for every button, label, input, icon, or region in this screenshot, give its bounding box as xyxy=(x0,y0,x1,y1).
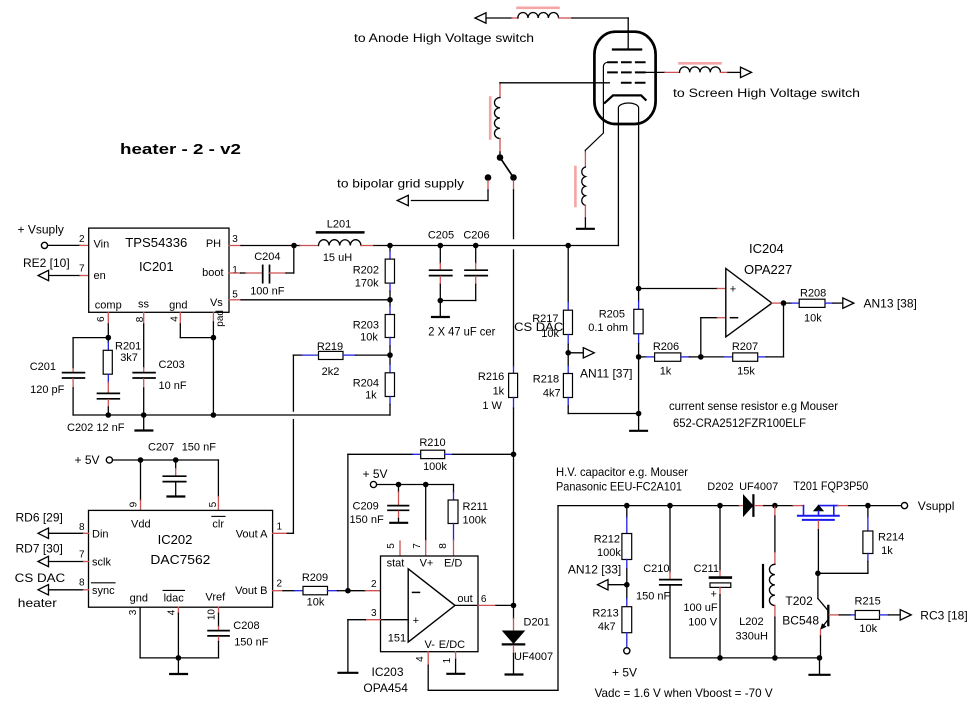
pin number 3 xyxy=(232,234,238,245)
ground boost rail xyxy=(810,658,830,675)
svg-text:V-: V- xyxy=(425,639,436,651)
svg-text:+ 5V: + 5V xyxy=(363,467,388,481)
arrow RD6 xyxy=(38,528,49,538)
wire AN12 node to arrow xyxy=(609,584,627,586)
node AN12 xyxy=(624,582,630,588)
ground D201 xyxy=(506,646,523,675)
svg-text:PH: PH xyxy=(206,238,221,250)
node out xyxy=(511,603,517,609)
wire grid choke to switch pole xyxy=(499,139,501,158)
svg-text:C206: C206 xyxy=(463,230,489,242)
svg-text:IC203: IC203 xyxy=(372,665,404,679)
op-amp triangle IC203 xyxy=(408,569,455,642)
label AN11 [37] xyxy=(580,367,632,381)
label CS DAC (mid) xyxy=(514,320,563,334)
IC U201 TPS54336 box xyxy=(89,228,229,312)
svg-text:10k: 10k xyxy=(307,597,325,609)
arrow to Anode High Voltage switch xyxy=(475,13,486,23)
pin number 4 (rotated) xyxy=(166,609,177,615)
svg-text:UF4007: UF4007 xyxy=(739,481,778,493)
capacitor C207 xyxy=(148,442,216,482)
pin number 8 xyxy=(79,522,85,533)
resistor R212 xyxy=(594,506,632,585)
svg-text:AN12 [33]: AN12 [33] xyxy=(568,563,621,577)
resistor R204 xyxy=(353,355,395,415)
node gnd rail pad xyxy=(211,412,217,418)
resistor R216 xyxy=(478,366,518,454)
svg-text:9: 9 xyxy=(129,501,140,507)
wire Vref pin to C208 xyxy=(218,607,220,630)
svg-text:gnd: gnd xyxy=(130,593,148,605)
svg-text:3k7: 3k7 xyxy=(120,352,138,364)
pin number 10 (rotated) xyxy=(206,609,217,621)
svg-text:H.V. capacitor e.g. Mouser: H.V. capacitor e.g. Mouser xyxy=(556,465,688,479)
resistor R213 xyxy=(592,585,631,648)
node AN11 xyxy=(565,350,571,356)
op-amp IC204 OPA227 xyxy=(726,241,792,337)
capacitor C208 xyxy=(208,620,269,649)
node R210/switch line xyxy=(511,452,517,458)
ferrite bead anode (inductor) xyxy=(518,8,559,18)
resistor R207 xyxy=(701,303,784,377)
node C209 branch xyxy=(396,482,402,488)
svg-text:4k7: 4k7 xyxy=(598,621,616,633)
resistor R203 xyxy=(353,300,395,355)
pin number 7 xyxy=(79,264,85,275)
pin number 4 (rotated) xyxy=(415,656,426,662)
svg-text:4: 4 xyxy=(415,656,426,662)
svg-text:R205: R205 xyxy=(599,309,625,321)
svg-text:120 pF: 120 pF xyxy=(30,384,65,396)
wire PH pin to node xyxy=(229,245,294,247)
capacitor C201 xyxy=(30,361,85,396)
label 2 X 47 uF cer xyxy=(428,325,495,339)
node gnd rail C202 xyxy=(106,412,112,418)
svg-text:sync: sync xyxy=(92,585,115,597)
wire switch line to out node xyxy=(513,454,515,605)
wire R205 bottom to sense gnd xyxy=(638,357,640,414)
label T201 FQP3P50 xyxy=(793,479,868,493)
svg-text:E/D: E/D xyxy=(444,558,462,570)
resistor R210 xyxy=(413,437,514,473)
wire ss pin to C203 xyxy=(143,312,145,372)
svg-text:1: 1 xyxy=(232,265,238,276)
svg-text:652-CRA2512FZR100ELF: 652-CRA2512FZR100ELF xyxy=(673,416,806,430)
svg-text:100k: 100k xyxy=(463,515,487,527)
svg-text:C211: C211 xyxy=(694,563,719,575)
pin number 8 (rotated) xyxy=(135,316,146,322)
svg-text:BC548: BC548 xyxy=(782,614,819,628)
pin number 7 (rotated) xyxy=(412,543,423,549)
label RC3 [18] xyxy=(920,609,967,623)
label to Screen High Voltage switch xyxy=(673,86,860,100)
ground IC201 rail xyxy=(136,415,153,431)
svg-text:4: 4 xyxy=(170,316,181,322)
arrow AN13 xyxy=(843,298,854,308)
svg-text:clr: clr xyxy=(212,519,224,531)
terminal Vsuppl xyxy=(868,499,955,513)
pin number 6 xyxy=(481,594,487,605)
resistor R211 xyxy=(448,485,488,557)
svg-text:10k: 10k xyxy=(804,313,822,325)
svg-text:C207: C207 xyxy=(148,442,174,454)
label AN12 [33] xyxy=(568,563,621,577)
wire ferrite to tube anode xyxy=(559,18,629,49)
pin number 2 xyxy=(277,579,283,590)
svg-text:1k: 1k xyxy=(881,545,893,557)
wire switch line crossing gap resume xyxy=(513,250,515,366)
resistor R208 xyxy=(784,288,843,325)
node sense gnd xyxy=(636,411,642,417)
terminal +Vsuply xyxy=(18,223,64,249)
arrow to Screen High Voltage switch xyxy=(741,67,752,77)
diode D201 xyxy=(503,605,553,663)
svg-text:gnd: gnd xyxy=(169,300,187,312)
wire ldac pin IC202 xyxy=(177,607,179,658)
node R203/R204/R219 xyxy=(387,352,393,358)
svg-text:OPA227: OPA227 xyxy=(744,262,792,277)
resistor R202 xyxy=(353,246,395,300)
svg-text:UF4007: UF4007 xyxy=(514,651,553,663)
svg-text:+: + xyxy=(730,283,736,295)
arrow to bipolar grid supply xyxy=(397,195,408,205)
terminal +5V (DAC) xyxy=(75,453,113,467)
svg-text:15 uH: 15 uH xyxy=(323,252,352,264)
label OPA454 xyxy=(363,681,408,695)
label H.V. capacitor e.g. Mouser xyxy=(556,465,688,479)
capacitor C204 xyxy=(250,251,285,298)
wire analog gnd rail xyxy=(73,414,390,416)
svg-text:150 nF: 150 nF xyxy=(349,514,384,526)
switch S1 xyxy=(485,154,517,181)
wire +5V rail OPA xyxy=(377,484,454,486)
svg-text:3: 3 xyxy=(232,234,238,245)
wire R210 feedback loop xyxy=(348,454,413,590)
node feedback xyxy=(698,354,704,360)
svg-text:R201: R201 xyxy=(115,341,141,353)
node Vdd branch xyxy=(138,457,144,463)
svg-text:RC3 [18]: RC3 [18] xyxy=(920,609,967,623)
svg-text:D201: D201 xyxy=(524,617,550,629)
node R212 tap xyxy=(624,503,630,509)
label Panasonic EEU-FC2A101 xyxy=(556,480,682,494)
svg-text:en: en xyxy=(94,270,106,282)
wire C204 to PH node xyxy=(270,248,294,273)
svg-text:1k: 1k xyxy=(365,390,377,402)
svg-text:to Screen High Voltage switch: to Screen High Voltage switch xyxy=(673,86,860,100)
wire Vsuply to Vin pin 2 xyxy=(48,244,89,246)
svg-text:RD7 [30]: RD7 [30] xyxy=(16,541,63,555)
svg-text:T202: T202 xyxy=(785,594,813,608)
wire heater rail xyxy=(390,245,618,247)
node V+ branch xyxy=(423,482,429,488)
svg-text:R206: R206 xyxy=(653,341,679,353)
svg-text:heater - 2 - v2: heater - 2 - v2 xyxy=(120,141,241,158)
node C207 branch xyxy=(173,457,179,463)
svg-text:RD6 [29]: RD6 [29] xyxy=(16,510,63,524)
svg-text:170k: 170k xyxy=(355,278,379,290)
svg-text:out: out xyxy=(457,593,472,605)
svg-text:C209: C209 xyxy=(353,501,379,513)
svg-text:7: 7 xyxy=(79,264,85,275)
pin number 5 (rotated) xyxy=(386,543,397,549)
label RD7 [30] xyxy=(16,541,63,555)
svg-text:R211: R211 xyxy=(463,501,488,513)
pin number 7 xyxy=(79,549,85,560)
svg-text:heater: heater xyxy=(18,596,57,610)
svg-text:Vref: Vref xyxy=(205,592,226,604)
svg-text:Vout A: Vout A xyxy=(236,529,268,541)
svg-text:6: 6 xyxy=(481,594,487,605)
pin number 4 (rotated) xyxy=(170,316,181,322)
wire comp pin down xyxy=(107,312,109,337)
svg-text:2: 2 xyxy=(277,579,283,590)
svg-text:R213: R213 xyxy=(592,608,618,620)
terminal +5V (R213) xyxy=(612,648,637,680)
svg-text:C204: C204 xyxy=(254,251,280,263)
label IC203 xyxy=(372,665,404,679)
svg-text:IC201: IC201 xyxy=(139,259,174,274)
svg-text:10 nF: 10 nF xyxy=(159,380,187,392)
node comp xyxy=(106,335,112,341)
svg-text:4: 4 xyxy=(166,609,177,615)
svg-text:150 nF: 150 nF xyxy=(636,591,671,603)
svg-text:Din: Din xyxy=(92,529,109,541)
pin number 1 xyxy=(232,265,238,276)
node opamp + tap xyxy=(636,286,642,292)
wire screen ferrite to arrow xyxy=(721,71,741,73)
wire Vout A pin 1 xyxy=(273,532,294,534)
capacitor C210 xyxy=(636,503,681,658)
svg-text:10k: 10k xyxy=(859,623,877,635)
svg-text:Vs: Vs xyxy=(210,297,223,309)
svg-text:to bipolar grid supply: to bipolar grid supply xyxy=(337,177,464,191)
wire sync pin 8 xyxy=(49,589,89,591)
svg-text:4k7: 4k7 xyxy=(543,388,561,400)
svg-text:R209: R209 xyxy=(302,572,328,584)
label 652-CRA2512FZR100ELF xyxy=(673,416,806,430)
svg-text:R203: R203 xyxy=(353,320,379,332)
svg-text:10: 10 xyxy=(206,609,217,621)
resistor R217 xyxy=(532,246,572,353)
svg-text:3: 3 xyxy=(128,609,139,615)
wire Vout B pin 2 xyxy=(273,590,295,592)
node gate/R214/T202 collector xyxy=(815,571,821,577)
node L202 gnd xyxy=(772,655,778,661)
svg-text:1: 1 xyxy=(442,657,453,663)
svg-text:C203: C203 xyxy=(159,359,185,371)
wire + input ground xyxy=(348,620,408,672)
node DAC gnd xyxy=(176,655,182,661)
node T202 emitter gnd xyxy=(817,655,823,661)
IC U203 OPA454 box xyxy=(381,556,479,652)
wire V- pin 4 to -70V xyxy=(428,506,558,691)
wire Vboost rail xyxy=(558,505,739,507)
pin label pad (rotated) xyxy=(215,310,226,327)
resistor R209 xyxy=(295,572,348,609)
svg-text:E/DC: E/DC xyxy=(439,639,465,651)
node pad xyxy=(211,335,217,341)
node inverting input xyxy=(345,588,351,594)
wire clr pin xyxy=(217,460,219,510)
svg-text:100 uF: 100 uF xyxy=(683,602,718,614)
svg-text:+ Vsuply: + Vsuply xyxy=(18,223,64,237)
svg-text:1k: 1k xyxy=(493,386,505,398)
node R205 bottom xyxy=(636,354,642,360)
svg-text:100k: 100k xyxy=(423,461,447,473)
resistor R201 xyxy=(103,338,141,393)
label AN13 [38] xyxy=(864,297,917,311)
wire V+ pin 7 xyxy=(425,485,427,557)
svg-text:Panasonic EEU-FC2A101: Panasonic EEU-FC2A101 xyxy=(556,480,682,494)
wire RE2 arrow to en pin 7 xyxy=(49,275,89,277)
arrow AN12 xyxy=(598,580,609,590)
capacitor C203 xyxy=(133,359,187,392)
node opamp output xyxy=(772,300,786,306)
svg-text:Vin: Vin xyxy=(94,239,110,251)
svg-text:100 nF: 100 nF xyxy=(250,286,285,298)
svg-text:OPA454: OPA454 xyxy=(363,681,408,695)
svg-text:150 nF: 150 nF xyxy=(234,637,269,649)
svg-text:L202: L202 xyxy=(739,616,763,628)
svg-text:5: 5 xyxy=(208,501,219,507)
svg-text:+ 5V: + 5V xyxy=(75,453,100,467)
svg-text:R216: R216 xyxy=(478,371,504,383)
svg-text:R218: R218 xyxy=(533,374,559,386)
svg-text:C201: C201 xyxy=(30,361,56,373)
svg-text:IC202: IC202 xyxy=(158,532,193,547)
node T201 drain / R214 xyxy=(865,503,871,509)
pin number 5 (rotated) xyxy=(208,501,219,507)
tube grid1 internal lead xyxy=(585,62,608,150)
tube anode plate xyxy=(613,48,641,50)
svg-text:T201 FQP3P50: T201 FQP3P50 xyxy=(793,479,868,493)
ground E/DC xyxy=(447,673,464,675)
pin number 1 (rotated) xyxy=(442,657,453,663)
svg-text:R208: R208 xyxy=(800,288,826,300)
svg-text:R202: R202 xyxy=(353,265,379,277)
svg-text:10k: 10k xyxy=(360,332,378,344)
svg-text:3: 3 xyxy=(371,608,377,619)
svg-text:CS DAC: CS DAC xyxy=(15,571,66,585)
resistor R218 xyxy=(533,353,573,414)
ground cathode choke xyxy=(577,228,594,230)
wire pad pin down xyxy=(212,312,214,337)
node PH/L201/C204 xyxy=(291,243,297,249)
ground DAC xyxy=(170,658,187,674)
tube heater filament xyxy=(618,103,638,124)
pin number 8 xyxy=(79,577,85,588)
svg-text:R212: R212 xyxy=(594,534,620,546)
capacitor C205 xyxy=(428,230,454,301)
svg-text:ss: ss xyxy=(138,299,150,311)
capacitor C202 xyxy=(67,393,125,434)
arrow RC3 xyxy=(900,610,911,620)
ground sense xyxy=(630,414,647,431)
svg-text:IC204: IC204 xyxy=(749,241,784,256)
wire Din pin 8 xyxy=(49,532,89,534)
svg-text:1 W: 1 W xyxy=(482,400,502,412)
node Vs/R202/R203 xyxy=(387,297,393,303)
wire - input IC203 xyxy=(348,590,408,592)
svg-text:AN13 [38]: AN13 [38] xyxy=(864,297,917,311)
tube grid 1 (top dashed row) xyxy=(608,61,645,63)
wire comp node to C201 xyxy=(73,338,108,372)
svg-text:R204: R204 xyxy=(353,378,379,390)
pin number 6 (rotated) xyxy=(96,316,107,322)
svg-text:100k: 100k xyxy=(597,547,621,559)
resistor R206 xyxy=(639,341,701,378)
svg-text:TPS54336: TPS54336 xyxy=(125,235,187,250)
svg-text:RE2 [10]: RE2 [10] xyxy=(23,256,70,270)
svg-text:2: 2 xyxy=(371,579,377,590)
svg-text:to Anode High Voltage switch: to Anode High Voltage switch xyxy=(354,31,534,45)
grid choke (vertical inductor) xyxy=(490,98,500,139)
label to Anode High Voltage switch xyxy=(354,31,534,45)
ground C209 xyxy=(390,511,407,523)
wire heater right leg upper xyxy=(638,124,640,289)
wire T202 emitter to gnd xyxy=(820,630,822,658)
svg-text:DAC7562: DAC7562 xyxy=(150,552,210,567)
arrow CS DAC xyxy=(38,585,49,595)
wire anode arrow to ferrite xyxy=(486,17,518,19)
svg-text:C210: C210 xyxy=(643,563,669,575)
wire T202 base to R215 xyxy=(829,614,855,616)
transistor T202 BC548 xyxy=(782,573,828,630)
label RE2 [10] xyxy=(23,256,70,270)
label heater xyxy=(18,596,57,610)
resistor R205 xyxy=(588,289,643,357)
svg-text:D202: D202 xyxy=(707,481,733,493)
node gnd rail C203 xyxy=(141,412,147,418)
resistor R214 xyxy=(818,506,904,574)
capacitor C206 xyxy=(440,230,489,301)
pin stub stat 5 xyxy=(399,541,401,556)
svg-text:Vdd: Vdd xyxy=(131,519,151,531)
wire R219 to Vout A (crossover) xyxy=(292,355,294,533)
wire E/DC pin 1 ground xyxy=(455,652,457,673)
wire C203 to gnd rail xyxy=(143,379,145,415)
pin number 2 xyxy=(371,579,377,590)
IC U202 DAC7562 box xyxy=(89,510,273,607)
svg-text:6: 6 xyxy=(96,316,107,322)
svg-text:V+: V+ xyxy=(420,558,434,570)
resistor R215 xyxy=(855,596,901,636)
arrow RD7 xyxy=(38,556,49,566)
svg-text:0.1 ohm: 0.1 ohm xyxy=(588,322,628,334)
arrow AN11 xyxy=(583,348,594,358)
wire boost gnd rail xyxy=(670,657,820,659)
wire gnd pin IC202 xyxy=(140,607,178,658)
wire C208 to gnd node xyxy=(178,637,218,658)
svg-text:CS DAC: CS DAC xyxy=(514,320,563,334)
wire boot pin to C204 xyxy=(229,272,263,274)
svg-text:151: 151 xyxy=(388,633,406,645)
wire C202 to gnd rail xyxy=(107,400,109,415)
svg-text:2: 2 xyxy=(79,234,85,245)
label current sense resistor xyxy=(669,399,838,413)
svg-text:R215: R215 xyxy=(855,596,881,608)
svg-text:+: + xyxy=(711,589,717,601)
tube V1 envelope xyxy=(594,32,655,124)
label CS DAC (left) xyxy=(15,571,66,585)
svg-text:+: + xyxy=(413,615,419,627)
capacitor C211 (electrolytic) xyxy=(683,503,730,658)
label Vadc = 1.6 V when Vboost = -70 V xyxy=(595,686,773,700)
label to bipolar grid supply xyxy=(337,177,464,191)
svg-text:R219: R219 xyxy=(317,341,343,353)
svg-text:330uH: 330uH xyxy=(736,631,768,643)
